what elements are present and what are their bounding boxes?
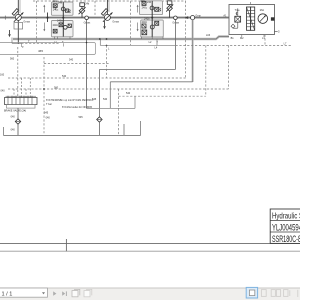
wire main pressure bus band1 <box>0 16 229 19</box>
dashed pilot y63 <box>44 63 110 65</box>
wire tank return bus band2 <box>13 37 229 40</box>
toolbar separator right <box>297 290 299 297</box>
svg-text:SSR180C-8: SSR180C-8 <box>272 234 300 244</box>
solenoid V1a coil <box>61 7 65 11</box>
tick p <box>20 43 22 47</box>
frame tick x66 <box>65 239 67 251</box>
dashed pilot y88 <box>8 88 229 90</box>
dashed drop x44 <box>43 57 45 135</box>
toolbar next-view icon <box>84 291 90 297</box>
wire node N2 to rail <box>174 20 176 70</box>
valve group V1 lower block <box>51 21 73 37</box>
valve V2a pilot <box>155 7 159 11</box>
pump P2 swash arm <box>101 9 107 16</box>
pump P1 supply stub <box>17 0 19 44</box>
wire V2 feed <box>151 1 153 37</box>
valve V1b <box>59 23 63 27</box>
port ticks FM1 <box>241 35 243 38</box>
svg-text:G: G <box>278 31 280 34</box>
wire rail B vertical <box>192 20 194 82</box>
dashed enclosure mid edge <box>94 1 96 16</box>
filter F2 <box>97 117 102 122</box>
bus junction group2 feed <box>151 17 153 19</box>
wire RV3 <box>237 8 239 16</box>
title block <box>270 209 301 243</box>
svg-text:540: 540 <box>126 92 131 95</box>
svg-text:240c: 240c <box>142 6 148 9</box>
svg-text:240b: 240b <box>144 17 150 20</box>
valve V2d <box>142 30 147 35</box>
pump P2 drain arrow <box>103 26 106 29</box>
relief valve RV2 <box>167 5 173 11</box>
valve group V2 lower block <box>141 20 164 37</box>
valve V1a pilot square <box>65 9 68 12</box>
svg-text:24b: 24b <box>58 1 63 4</box>
solenoid V1b coil <box>63 25 67 29</box>
svg-text:540: 540 <box>69 59 74 62</box>
pump P2 supply stub <box>106 0 108 15</box>
pump P1 swash arm <box>12 9 18 16</box>
svg-text:6YK7M/0RNBm up min RYCM1 PE3PR: 6YK7M/0RNBm up min RYCM1 PE3PRKX <box>46 99 94 102</box>
dashed manifold feeds <box>13 89 15 98</box>
pilot arrows V1 <box>43 6 45 13</box>
toolbar next arrow <box>53 291 56 295</box>
spring V2a <box>160 8 161 12</box>
svg-text:24b: 24b <box>147 1 152 4</box>
tick L feed1 <box>62 43 64 46</box>
valve V1a <box>53 4 57 8</box>
svg-text:240c: 240c <box>53 24 59 27</box>
svg-text:Gmax: Gmax <box>23 20 30 23</box>
node N2 <box>174 16 178 20</box>
svg-text:M2: M2 <box>240 37 244 40</box>
junction x44 y89 <box>43 88 45 90</box>
relief valve RV1 <box>79 8 85 14</box>
brake manifold BM1 <box>5 98 38 105</box>
valve V2c <box>142 24 146 28</box>
svg-text:040: 040 <box>11 116 16 119</box>
relief valve RV1 pilot box <box>80 3 85 7</box>
schematic frame line lower2 <box>0 250 300 252</box>
schematic frame line lower <box>0 242 300 244</box>
motor M1 <box>258 14 268 24</box>
wire rail B drop <box>109 82 111 109</box>
dashed pilot y45 riser motor <box>264 35 266 46</box>
svg-text:040: 040 <box>11 129 16 132</box>
bus junction group1 feed <box>62 17 64 19</box>
relief valve RV3 <box>235 16 241 22</box>
dashed drop x106 <box>106 45 108 78</box>
toolbar last arrow <box>62 291 65 295</box>
svg-text:540: 540 <box>103 98 108 101</box>
svg-text:545: 545 <box>44 111 49 114</box>
bus tap group1 <box>47 13 49 23</box>
svg-text:040: 040 <box>46 117 51 120</box>
valve group V2 upper block <box>140 1 163 15</box>
svg-text:1 / 1: 1 / 1 <box>2 292 13 298</box>
relief valve RV2 pilot box <box>167 1 172 5</box>
svg-text:240c: 240c <box>142 21 148 24</box>
svg-text:Gmax: Gmax <box>112 20 119 23</box>
tick L4b <box>156 39 158 46</box>
svg-text:560: 560 <box>10 58 15 61</box>
wire filter to rail <box>17 124 19 135</box>
toolbar prev-view icon <box>72 291 78 297</box>
solenoid V2a coil <box>150 6 154 10</box>
svg-text:545: 545 <box>79 116 84 119</box>
spring RV3 <box>236 12 237 15</box>
wire pilot rail y43 <box>12 42 21 44</box>
dashed enclosure right edge <box>185 1 187 77</box>
port G tick <box>275 31 278 33</box>
toolbar continuous-facing icon <box>284 290 288 297</box>
dashed drop x118 <box>118 89 120 135</box>
pilot arrows V2 <box>137 6 139 13</box>
valve V1b pilot square <box>68 24 71 27</box>
wire N1 drop <box>86 20 88 109</box>
dashed enclosure mid2 edge <box>130 1 132 45</box>
wire V1 feed <box>62 2 64 36</box>
valve V2a <box>142 1 146 5</box>
svg-text:6YC1Nd outlet for OF-DFB: 6YC1Nd outlet for OF-DFB <box>62 106 92 109</box>
dashed enclosure left edge <box>35 1 37 44</box>
svg-text:24b: 24b <box>85 3 90 6</box>
wire drop band2 to rail <box>99 39 101 45</box>
wire y135 rail <box>3 134 140 136</box>
svg-text:240b: 240b <box>57 20 63 23</box>
valve FV1 stack <box>247 7 251 30</box>
svg-text:465: 465 <box>38 49 43 53</box>
svg-text:L03: L03 <box>206 34 211 37</box>
dashed riser x205 <box>205 45 207 96</box>
pump P1 <box>15 14 21 20</box>
svg-text:Gmax: Gmax <box>172 22 179 25</box>
port ticks V1 <box>54 37 56 40</box>
pump P1 case drain box <box>14 23 23 30</box>
svg-text:Tme: Tme <box>235 9 241 12</box>
valve group V1 upper block <box>51 2 73 15</box>
node tick near left edge <box>4 16 6 20</box>
svg-text:Hydraulic S: Hydraulic S <box>272 211 300 220</box>
valve V1c <box>53 29 57 33</box>
port ticks V2 <box>141 37 143 40</box>
wire rail A drop <box>98 70 100 117</box>
svg-text:160: 160 <box>0 73 5 76</box>
svg-text:T bar: T bar <box>46 103 52 106</box>
wire pilot stub pump1 <box>11 38 13 44</box>
toolbar page combo <box>0 288 47 297</box>
dashed pilot y96 <box>119 95 206 97</box>
svg-text:YLJ004594: YLJ004594 <box>272 222 300 232</box>
toolbar continuous icon <box>261 290 266 297</box>
pump P1 drain arrow <box>8 34 11 37</box>
fan motor block FM1 <box>229 5 275 35</box>
toolbar facing icon <box>271 290 275 297</box>
wire brake drop <box>17 108 19 119</box>
dashed enclosure top edge <box>33 0 186 2</box>
motor shaft <box>271 17 275 20</box>
svg-text:BRAKE VALVE (2#): BRAKE VALVE (2#) <box>4 110 26 113</box>
toolbar single page icon selected <box>246 287 257 298</box>
svg-text:24V: 24V <box>53 0 58 3</box>
pump P2 <box>104 14 110 20</box>
spring V1a <box>69 9 70 13</box>
dashed pilot y77 <box>8 77 186 79</box>
svg-text:Gmp: Gmp <box>195 15 201 18</box>
toolbar <box>0 288 300 300</box>
node Gmp circle <box>191 16 195 20</box>
solenoid V2b coil <box>150 25 154 29</box>
dashed riser x226 <box>228 45 230 89</box>
filter F1 <box>15 119 20 124</box>
valve V2b <box>155 21 159 25</box>
svg-text:040: 040 <box>1 89 6 92</box>
wire rail A horizontal <box>99 69 175 71</box>
node N1 <box>85 16 89 20</box>
port tick top <box>250 2 252 5</box>
svg-text:24V: 24V <box>141 0 146 3</box>
svg-text:580: 580 <box>54 87 59 90</box>
wire rail B horizontal <box>110 81 192 83</box>
svg-text:540: 540 <box>62 75 67 78</box>
flat box left <box>0 43 96 55</box>
svg-text:Gmax: Gmax <box>84 22 91 25</box>
svg-text:240c: 240c <box>53 9 59 12</box>
tank box T2 <box>87 107 136 109</box>
svg-text:Mot: Mot <box>260 9 264 12</box>
